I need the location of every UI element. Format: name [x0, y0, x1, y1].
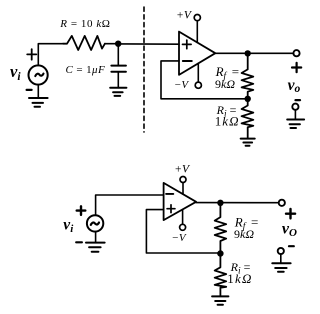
- label - (vo top): [296, 99, 301, 101]
- svg-text:vi: vi: [10, 62, 21, 83]
- -V terminal (top): [195, 63, 201, 88]
- svg-text:C = 1μF: C = 1μF: [65, 64, 105, 76]
- svg-text:−V: −V: [171, 232, 186, 244]
- op-amp U1: [179, 32, 215, 75]
- resistor Ri (bottom): [215, 254, 227, 296]
- dashed separator line: [143, 7, 145, 132]
- wire node A to capacitor: [117, 44, 119, 66]
- wire source to resistor R: [38, 44, 63, 65]
- label - (bottom source polarity): [76, 241, 82, 243]
- label - (vo bottom): [289, 245, 294, 247]
- wire resistor to node A: [105, 43, 118, 45]
- op-amp U2: [164, 183, 197, 220]
- -V terminal (bottom): [180, 210, 186, 231]
- node C (feedback junction top): [245, 96, 251, 102]
- svg-text:+V: +V: [176, 10, 193, 22]
- capacitor C: [111, 66, 126, 72]
- ground (Ri top): [241, 139, 255, 146]
- svg-text:vO: vO: [282, 221, 297, 240]
- node B (output junction top): [245, 50, 251, 56]
- label + (bottom source polarity): [77, 206, 86, 215]
- svg-text:−V: −V: [174, 79, 189, 91]
- resistor R: [63, 36, 105, 50]
- ground (top source): [29, 98, 48, 107]
- label + (vo top): [292, 63, 301, 72]
- svg-text:+V: +V: [174, 164, 191, 176]
- svg-text:R = 10 kΩ: R = 10 kΩ: [59, 18, 110, 30]
- svg-text:9kΩ: 9kΩ: [215, 77, 235, 91]
- node D (output junction bottom): [217, 200, 223, 206]
- +V terminal (bottom): [180, 177, 186, 195]
- output terminal vo- (bottom): [278, 248, 284, 263]
- ground (bottom source): [86, 243, 105, 252]
- wire capacitor to ground: [117, 72, 119, 88]
- ground (capacitor): [110, 88, 126, 96]
- wire node A to op-amp noninverting input: [118, 43, 179, 45]
- wire feedback (top): [161, 61, 248, 99]
- wire op-amp output (bottom): [196, 202, 279, 204]
- wire source to ground (top): [37, 85, 39, 98]
- voltage source vi (bottom): [87, 215, 103, 231]
- svg-text:9kΩ: 9kΩ: [234, 227, 254, 241]
- resistor Rf (top): [242, 53, 254, 98]
- wire source to ground (bottom): [95, 232, 97, 243]
- output terminal vo+ (top): [293, 50, 299, 56]
- ground (vo bottom): [272, 263, 290, 272]
- +V terminal (top): [194, 15, 200, 43]
- output terminal vo- (top): [292, 104, 298, 120]
- svg-text:vi: vi: [63, 217, 74, 236]
- svg-text:1kΩ: 1kΩ: [215, 113, 240, 128]
- voltage source vi (top): [28, 65, 47, 84]
- svg-text:1kΩ: 1kΩ: [227, 271, 252, 286]
- wire feedback (bottom): [146, 210, 220, 253]
- resistor Rf (bottom): [215, 203, 227, 254]
- label - (top source polarity): [27, 89, 32, 91]
- svg-text:vo: vo: [288, 77, 301, 95]
- ground (Ri bottom): [212, 296, 228, 304]
- ground (vo top): [287, 120, 304, 129]
- node E (feedback junction bottom): [217, 250, 223, 256]
- label + (vo bottom): [286, 209, 295, 218]
- wire source to op-amp inverting input (bottom): [96, 195, 164, 215]
- output terminal vo+ (bottom): [279, 200, 285, 206]
- wire op-amp output (top): [215, 52, 293, 54]
- label + (top source polarity): [27, 49, 36, 60]
- resistor Ri (top): [242, 99, 254, 138]
- node A (junction dot): [115, 41, 121, 47]
